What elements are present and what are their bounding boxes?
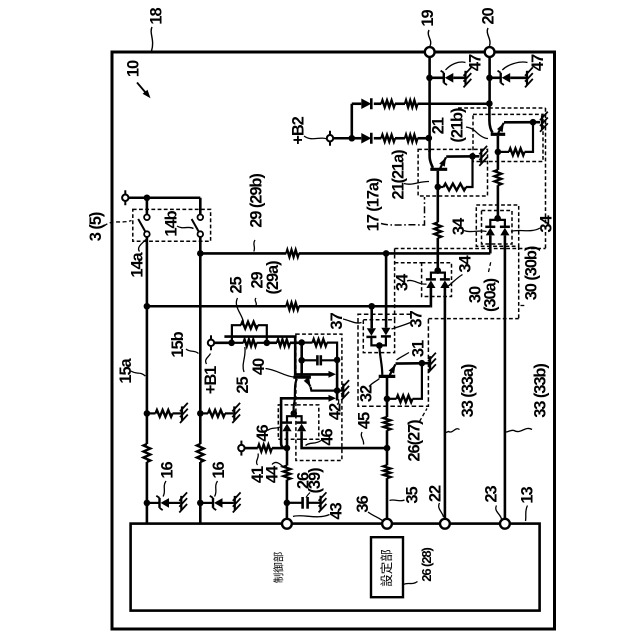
leader for 44: [272, 462, 283, 466]
wire 20-line upper: [488, 57, 491, 104]
leader for 14a: [139, 240, 146, 252]
resistor Q21b loop: [509, 149, 524, 156]
transistor Q21b collector lead: [497, 136, 500, 170]
transistor Q31 bar: [379, 375, 396, 378]
terminal 23 on box: [500, 519, 510, 529]
leader for 37 left: [343, 319, 362, 323]
terminal 19: [425, 47, 435, 57]
resistor row1 a: [381, 100, 395, 107]
resistor cap-loop top: [313, 339, 327, 346]
dashed box 30 bottom: [428, 318, 518, 320]
resistor 25 loop top: [232, 325, 241, 343]
dashed box 3(5): [133, 209, 211, 241]
node 30b top: [494, 215, 501, 222]
wire zener 47b to ground: [510, 77, 526, 80]
svg-text:46: 46: [318, 429, 336, 446]
leader for 22: [439, 503, 444, 517]
leader for 45: [361, 432, 363, 445]
wire 30a right out: [444, 288, 447, 519]
leader for 34 b-left: [464, 231, 487, 232]
resistor 15a gnd: [156, 410, 173, 417]
svg-text:+B2: +B2: [289, 116, 307, 144]
leader for 47 left: [446, 62, 466, 70]
leader for 16 left: [163, 481, 166, 497]
svg-text:47: 47: [466, 54, 484, 71]
wire Q21b loop corner: [525, 122, 534, 152]
svg-text:設定部: 設定部: [379, 549, 394, 587]
diode 34 a-left: [426, 278, 436, 281]
leader for 36: [368, 512, 383, 521]
transistor Q40 base S-curve: [294, 379, 297, 412]
diode 37 left: [367, 328, 376, 336]
wire 21a collector lower: [436, 238, 439, 271]
leader for 47 right: [502, 62, 527, 70]
node 16b: [197, 500, 204, 507]
switch 14b blade: [192, 219, 199, 232]
wire 15b upper: [199, 237, 202, 444]
svg-text:42: 42: [326, 403, 344, 420]
leader for 25 lower: [243, 347, 245, 372]
resistor after node R: [277, 339, 290, 346]
dashed box 40: [296, 334, 342, 460]
node Q21a collector: [435, 184, 442, 191]
terminal 20: [485, 47, 495, 57]
svg-text:35: 35: [403, 487, 421, 504]
dash-dot box 17 bottom: [395, 248, 546, 250]
leader for 42: [337, 399, 339, 404]
resistor 35: [384, 465, 391, 478]
switch 14b contact bottom: [198, 231, 204, 237]
wire Q21a loop corner: [466, 156, 473, 187]
ground for Q21a: [480, 149, 482, 163]
dashed box 21a: [418, 149, 487, 196]
setting unit box 28: [371, 537, 403, 597]
svg-text:26(27): 26(27): [405, 420, 423, 462]
svg-text:(21b): (21b): [449, 108, 467, 143]
dash-dot leader 26(27): [420, 409, 428, 422]
wire lower 42 feed: [281, 398, 330, 448]
transistor Q31 base lead: [379, 346, 382, 375]
dash-dot leader 17(17a): [381, 197, 425, 225]
leader for 46 right: [306, 441, 322, 446]
node on 20-line at 47b: [486, 75, 493, 82]
svg-text:+B1: +B1: [202, 366, 220, 394]
wire 30a bridge: [431, 273, 445, 280]
leader for 25 upper: [236, 298, 243, 323]
dashed box 30 left notch: [395, 262, 422, 264]
svg-text:37: 37: [328, 313, 346, 330]
svg-text:19: 19: [419, 10, 437, 27]
node L: [228, 340, 235, 347]
ground for 43: [320, 496, 322, 510]
svg-text:16: 16: [210, 462, 228, 479]
leader for +B1: [206, 354, 211, 365]
leader for 41: [257, 454, 259, 466]
node 29a row start: [144, 303, 151, 310]
leader for 46 left: [268, 427, 282, 431]
leader for 23: [496, 506, 502, 520]
resistor 15b gnd: [208, 410, 225, 417]
wire to node 301: [290, 341, 302, 344]
svg-text:34: 34: [393, 273, 411, 291]
node 41/44/46: [284, 445, 291, 452]
wire row 29b: [200, 252, 286, 255]
switch 14b contact top: [198, 215, 204, 221]
svg-text:16: 16: [158, 462, 176, 479]
wire 46 left down: [286, 431, 289, 465]
svg-text:13: 13: [518, 487, 536, 504]
svg-text:33 (33b): 33 (33b): [531, 364, 549, 418]
wire to zener 16a: [147, 502, 160, 504]
border frame of device 18: [112, 52, 555, 629]
wire to zener 16b: [200, 502, 213, 504]
wire row 29b right: [299, 252, 491, 255]
svg-text:29 (29b): 29 (29b): [247, 174, 265, 228]
diode D2 row2: [361, 133, 371, 143]
node Q21a emitter: [469, 153, 476, 160]
resistor row2 a: [381, 135, 395, 142]
svg-text:(30a): (30a): [481, 278, 499, 312]
leader for 37 right: [392, 323, 411, 330]
leader for 34 a-right: [447, 275, 463, 288]
resistor 45: [384, 417, 391, 430]
dashed leader 30(30a): [489, 261, 492, 272]
wire 41 row: [245, 447, 258, 450]
wire Q31 loop corner: [413, 363, 422, 399]
wire 46 bridge: [287, 416, 302, 422]
svg-text:15a: 15a: [117, 357, 135, 383]
svg-text:31: 31: [409, 340, 427, 357]
wire Q21b loop left: [498, 151, 509, 153]
node 29a to 37: [368, 303, 375, 310]
wire row2 seg3: [395, 137, 405, 140]
leader for 29(29a): [255, 298, 256, 306]
wire 15a gnd-row: [147, 412, 156, 414]
diode 34 b-left: [485, 226, 495, 229]
switch 14a blade: [138, 219, 145, 232]
transistor Q21b base lead: [489, 104, 492, 133]
wire +B2 to node: [333, 137, 352, 140]
leader for 16 right: [215, 481, 218, 497]
wire 15a lower: [146, 462, 149, 524]
capacitor 26 plate right: [319, 355, 322, 365]
wire row 29a right: [299, 305, 431, 308]
svg-text:34: 34: [537, 215, 555, 233]
wire 16a to ground: [169, 502, 180, 504]
wire Q21b emitter to ground node: [504, 121, 540, 124]
svg-text:47: 47: [529, 54, 547, 71]
control unit box 13: [131, 524, 540, 611]
svg-text:34: 34: [450, 217, 468, 235]
wire cap leads: [302, 359, 318, 361]
ground for 16b: [234, 496, 236, 510]
svg-text:21: 21: [429, 117, 447, 134]
svg-text:26 (28): 26 (28): [419, 547, 434, 581]
terminal 43 on box: [282, 519, 292, 529]
diode 34 a-right: [440, 278, 450, 281]
wire row1 seg3: [395, 102, 405, 105]
svg-text:3 (5): 3 (5): [87, 212, 105, 241]
wire 46 right down: [302, 431, 387, 448]
svg-text:14a: 14a: [128, 251, 146, 277]
zener diode 16 (left): [158, 498, 160, 508]
resistor R on 21a collector line: [434, 222, 441, 237]
wire 37 join: [371, 337, 386, 346]
diode D1 row1: [361, 99, 371, 109]
svg-text:14b: 14b: [162, 210, 180, 236]
wire cap43 lead: [287, 502, 302, 504]
terminal 3(5): [124, 190, 126, 205]
svg-text:23: 23: [482, 486, 500, 503]
capacitor 43 plate left: [301, 497, 304, 509]
node row1 on 20-line: [486, 100, 493, 107]
wire row 29a: [147, 305, 286, 308]
dash-dot box 17 top: [458, 107, 546, 109]
arrow for 10: [137, 83, 149, 97]
leader for 33(33a): [446, 429, 460, 433]
switch 14a contact top: [144, 215, 150, 221]
ground for 42: [342, 384, 344, 398]
wire cap-loop top segs: [302, 342, 313, 344]
leader for 40: [266, 369, 294, 378]
wire 30b right out: [504, 235, 507, 519]
wire 41 row seg2: [272, 447, 287, 450]
diode 37 right: [381, 328, 390, 336]
node on 19-line at 47a: [426, 75, 433, 82]
diode 46 right: [297, 421, 307, 424]
node 37 out: [376, 342, 383, 349]
leader for 13: [526, 506, 528, 522]
wire 42-line vert: [336, 360, 339, 401]
resistor 41: [258, 445, 272, 452]
terminal 36 on box: [382, 519, 392, 529]
leader for 15a: [131, 371, 145, 376]
leader for 19: [428, 30, 431, 46]
wire 19-line upper: [428, 57, 431, 152]
transistor Q21a base lead: [430, 150, 433, 168]
svg-text:45: 45: [355, 412, 373, 429]
wire row2 to 19-line: [418, 137, 429, 140]
wire 16b to ground: [223, 502, 234, 504]
svg-text:18: 18: [147, 8, 165, 25]
ground 15a row: [181, 406, 183, 420]
svg-text:40: 40: [250, 358, 268, 375]
svg-text:10: 10: [124, 60, 142, 77]
dash-dot box 17 left lower: [394, 249, 396, 320]
wire resistor to R: [257, 342, 267, 344]
svg-text:22: 22: [426, 485, 444, 502]
leader for 21(21a): [404, 181, 429, 184]
node 43: [284, 500, 291, 507]
diode 34 b-right: [500, 226, 510, 229]
transistor Q21a bar: [430, 168, 447, 171]
svg-text:25: 25: [234, 377, 252, 394]
dashed box 30b inner 34: [482, 211, 513, 245]
transistor Q31 collector lead: [386, 378, 389, 417]
zener diode 47 (left): [443, 73, 445, 83]
leader for 31: [397, 353, 410, 361]
resistor 29(29b): [286, 250, 299, 257]
wire 44 down: [286, 480, 289, 519]
dashed box 30b outer: [476, 205, 518, 246]
wire 30b bridge: [490, 220, 505, 227]
leader for 33(33b): [506, 428, 532, 432]
svg-text:44: 44: [263, 465, 281, 483]
dashed box 37 inner: [363, 320, 394, 353]
transistor Q31 emitter: [390, 364, 396, 375]
node 16a: [144, 500, 151, 507]
terminal 41-row: [240, 441, 242, 456]
dashed box 26(27)/31 outer: [358, 314, 428, 406]
resistor on 15b line: [197, 444, 204, 462]
leader for 26(28): [404, 582, 418, 585]
transistor Q21a emitter: [440, 157, 446, 168]
transistor Q40 emitter diag: [306, 379, 310, 387]
terminal +B1: [210, 335, 212, 350]
node cap left: [298, 357, 305, 364]
wire 37 right feed: [385, 253, 388, 327]
capacitor 43 plate right: [306, 497, 309, 509]
wire +B2 node up: [350, 104, 353, 139]
wire 3(5) to switches: [129, 196, 201, 199]
arrow into 42 lower: [329, 395, 337, 402]
ground 15b row: [233, 406, 235, 420]
wire 15b lower: [199, 462, 202, 524]
wire cap43 lead2: [308, 502, 320, 504]
wire 15b gnd seg: [225, 412, 233, 414]
leader for 18: [151, 27, 153, 51]
wire 14b drop: [199, 198, 202, 215]
wire row1 to diode: [352, 102, 362, 105]
wire 15a upper: [146, 237, 149, 444]
wire 30b left out: [489, 235, 492, 253]
svg-text:(39): (39): [306, 468, 324, 494]
wire 21b collector lower: [497, 185, 500, 218]
svg-text:15b: 15b: [169, 331, 187, 357]
wire node R right: [267, 341, 277, 344]
wire 14a drop: [146, 198, 149, 215]
dashed leader 3(5): [104, 221, 132, 227]
ground for Q21b: [541, 115, 543, 129]
svg-text:32: 32: [357, 385, 375, 402]
dashed box 21b: [473, 114, 543, 161]
svg-text:34: 34: [456, 255, 474, 273]
resistor 25 loop bottom: [244, 339, 257, 346]
leader for 43: [293, 515, 330, 517]
wire 37 left feed: [370, 306, 373, 328]
leader for 14b: [177, 226, 194, 229]
resistor row1 b: [405, 100, 418, 107]
wire +B1 to node L: [214, 341, 231, 344]
transistor Q40 bar: [293, 376, 311, 379]
node +B2: [349, 135, 356, 142]
node 42 emitter: [334, 387, 341, 394]
ground for 47b: [526, 71, 528, 85]
ground for Q31: [429, 356, 431, 370]
svg-text:30 (30b): 30 (30b): [522, 246, 540, 300]
node row2 on 19-line: [426, 135, 433, 142]
svg-text:21(21a): 21(21a): [389, 150, 407, 200]
leader for 32: [369, 379, 380, 387]
node Q31 emitter: [419, 360, 426, 367]
node 15b gnd-row: [197, 410, 204, 417]
wire row1 seg2: [374, 102, 382, 105]
wire to zener 47b: [490, 77, 501, 80]
transistor Q21b bar: [491, 133, 506, 136]
leader for 26(39): [306, 493, 310, 498]
node 46 top: [291, 410, 298, 417]
leader for 35: [390, 499, 405, 502]
dashed leader 30(30b): [521, 305, 527, 307]
node Q31 collector: [384, 396, 391, 403]
wire Q21a loop left: [438, 186, 444, 188]
svg-text:46: 46: [254, 425, 272, 442]
resistor R on 21b collector line: [495, 170, 502, 185]
resistor row2 b: [405, 135, 418, 142]
wire 15a gnd seg: [173, 412, 182, 414]
dashed box 46: [278, 405, 319, 439]
node 29b to 37: [383, 250, 390, 257]
leader for 21(21b): [466, 127, 488, 139]
transistor Q21b emitter: [498, 123, 504, 133]
terminal +B2: [329, 131, 331, 146]
zener diode 16 (right): [212, 498, 214, 508]
node 29b row start: [197, 250, 204, 257]
node Q21b collector: [495, 149, 502, 156]
leader for 34 b-right: [511, 228, 540, 232]
wire Q31 emitter out: [396, 362, 429, 365]
node 30a top: [434, 267, 441, 274]
diode 46 left: [282, 421, 292, 424]
svg-text:(29a): (29a): [264, 261, 282, 295]
node 15a gnd-row: [144, 410, 151, 417]
resistor Q21a loop: [444, 184, 467, 191]
dashed box 30 right: [518, 246, 520, 318]
resistor 29(29a): [286, 303, 299, 310]
wire cap-loop left vert: [300, 343, 303, 376]
svg-text:43: 43: [327, 503, 345, 520]
zener diode 47 (right): [500, 73, 502, 83]
switch 14a contact bottom: [144, 231, 150, 237]
wire 45 to node: [386, 430, 389, 448]
resistor Q31 loop: [397, 395, 413, 402]
resistor on 15a line: [144, 444, 151, 462]
resistor 44: [284, 466, 291, 480]
node R: [264, 340, 271, 347]
leader for 29(29b): [254, 240, 255, 252]
node 14a top: [144, 194, 151, 201]
wire Q40 emitter out: [311, 387, 338, 391]
svg-text:制御部: 制御部: [272, 552, 285, 584]
capacitor 26 plate left: [316, 355, 319, 365]
wire row1 to 20-line: [418, 102, 490, 105]
node cap-loop left top: [298, 339, 305, 346]
wire row2 to diode: [352, 137, 362, 140]
svg-text:33 (33a): 33 (33a): [459, 364, 477, 417]
node Q21b emitter: [530, 119, 537, 126]
wire Q21a emitter to ground node: [446, 155, 479, 158]
leader for 15b: [186, 349, 199, 354]
svg-text:36: 36: [354, 496, 372, 513]
transistor Q21a collector lead: [436, 171, 439, 223]
ground for 47a: [464, 71, 466, 85]
leader for +B2: [304, 136, 327, 139]
wire row2 seg2: [374, 137, 382, 140]
wire 35 wires: [386, 448, 389, 465]
leader for 34 a-left: [407, 280, 427, 284]
arrow into 42 upper: [329, 371, 337, 378]
svg-text:25: 25: [227, 277, 245, 294]
